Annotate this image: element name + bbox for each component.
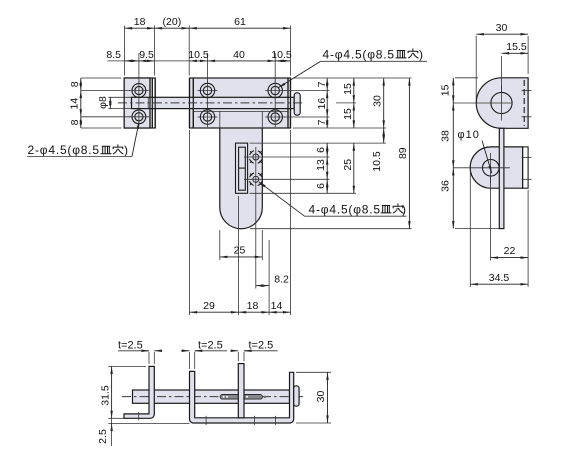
svg-text:t=2.5: t=2.5 <box>249 340 274 352</box>
svg-text:8: 8 <box>69 81 81 87</box>
svg-text:8.2: 8.2 <box>274 274 289 286</box>
svg-text:7: 7 <box>316 119 328 125</box>
svg-text:16: 16 <box>316 98 328 110</box>
svg-text:14: 14 <box>69 98 81 110</box>
svg-text:30: 30 <box>315 391 327 403</box>
svg-text:25: 25 <box>234 245 246 257</box>
svg-text:30: 30 <box>372 95 384 107</box>
svg-text:31.5: 31.5 <box>100 385 112 406</box>
svg-text:8.5: 8.5 <box>106 49 121 61</box>
svg-text:30: 30 <box>496 22 508 34</box>
svg-text:6: 6 <box>315 183 327 189</box>
svg-text:38: 38 <box>440 130 452 142</box>
svg-text:): ) <box>419 48 424 62</box>
svg-text:22: 22 <box>504 245 516 257</box>
svg-text:89: 89 <box>397 147 409 159</box>
svg-text:14: 14 <box>271 300 283 312</box>
svg-text:(20): (20) <box>163 16 182 28</box>
svg-text:φ8: φ8 <box>97 96 109 109</box>
svg-text:18: 18 <box>247 300 259 312</box>
svg-text:4-φ4.5(φ8.5: 4-φ4.5(φ8.5 <box>309 203 381 217</box>
svg-text:8: 8 <box>69 119 81 125</box>
svg-text:4-φ4.5(φ8.5: 4-φ4.5(φ8.5 <box>323 48 395 62</box>
svg-text:t=2.5: t=2.5 <box>118 340 143 352</box>
svg-text:29: 29 <box>203 300 215 312</box>
svg-text:13: 13 <box>315 159 327 171</box>
svg-text:40: 40 <box>233 49 245 61</box>
svg-text:t=2.5: t=2.5 <box>198 340 223 352</box>
svg-text:φ10: φ10 <box>458 129 480 141</box>
svg-text:10.5: 10.5 <box>271 49 292 61</box>
svg-text:25: 25 <box>342 159 354 171</box>
svg-text:): ) <box>124 143 129 157</box>
svg-text:36: 36 <box>440 180 452 192</box>
svg-text:10.5: 10.5 <box>188 49 209 61</box>
svg-text:2-φ4.5(φ8.5: 2-φ4.5(φ8.5 <box>28 143 100 157</box>
svg-text:15: 15 <box>440 84 452 96</box>
svg-text:34.5: 34.5 <box>489 272 510 284</box>
svg-text:2.5: 2.5 <box>97 429 109 444</box>
svg-text:61: 61 <box>234 16 246 28</box>
svg-text:9.5: 9.5 <box>139 49 154 61</box>
svg-text:10.5: 10.5 <box>371 151 383 172</box>
svg-text:6: 6 <box>315 147 327 153</box>
svg-text:15: 15 <box>342 108 354 120</box>
svg-text:15.5: 15.5 <box>506 41 527 53</box>
svg-text:15: 15 <box>342 83 354 95</box>
svg-text:18: 18 <box>134 16 146 28</box>
svg-text:7: 7 <box>316 81 328 87</box>
svg-text:): ) <box>402 203 407 217</box>
